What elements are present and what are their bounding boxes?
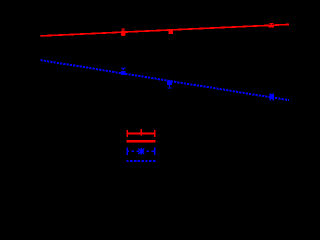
blue dashed fit line <box>41 60 290 100</box>
red errorbar point 2 <box>168 29 173 34</box>
blue errorbar point 2 <box>167 80 172 88</box>
blue errorbar point 1 <box>121 68 126 75</box>
red errorbar point 1 <box>121 29 126 35</box>
red errorbar point 3 <box>269 23 274 28</box>
legend row 1: red errorbar sample <box>126 129 155 137</box>
legend row 3: blue errorbar sample <box>126 148 155 155</box>
legend row 4: blue dashed line sample <box>126 160 155 162</box>
legend row 2: red line sample <box>126 140 155 143</box>
red fit line <box>40 24 289 36</box>
blue errorbar point 3 <box>269 94 274 100</box>
